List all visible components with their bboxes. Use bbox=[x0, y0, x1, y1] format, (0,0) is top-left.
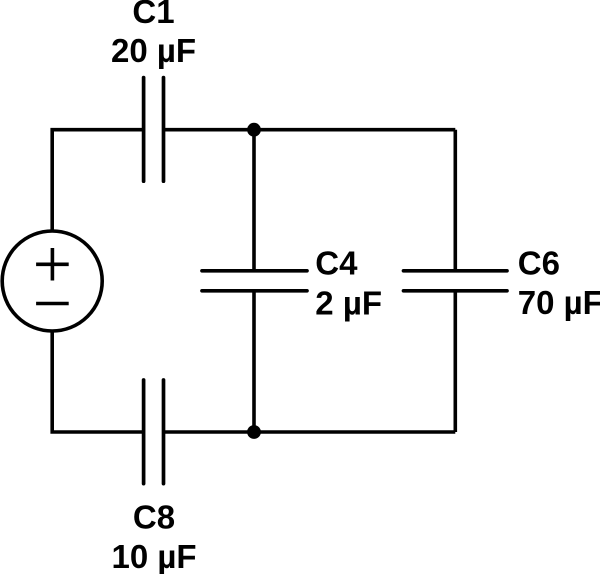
svg-text:C8: C8 bbox=[133, 499, 175, 536]
svg-text:2 µF: 2 µF bbox=[315, 284, 382, 321]
svg-text:C1: C1 bbox=[132, 0, 174, 30]
svg-text:10 µF: 10 µF bbox=[111, 538, 196, 574]
svg-text:C6: C6 bbox=[518, 245, 560, 282]
svg-text:C4: C4 bbox=[315, 245, 358, 282]
svg-text:20 µF: 20 µF bbox=[111, 32, 196, 69]
svg-text:70 µF: 70 µF bbox=[518, 284, 600, 321]
